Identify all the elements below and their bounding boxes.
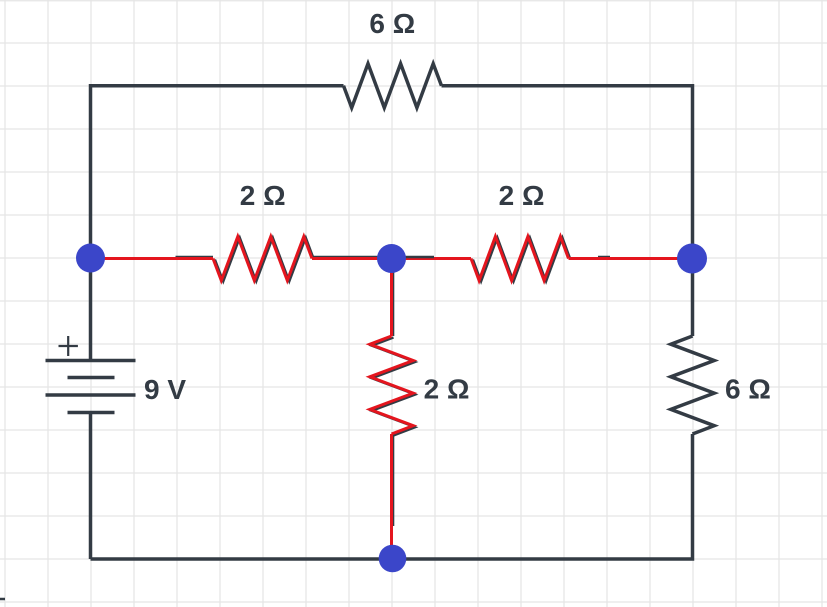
resistor R3 2ohm red vertical zigzag [370,336,413,434]
wire: top-left outer loop (left vertical upper + top horizontal left of R) [91,86,344,361]
resistor left 2ohm shadow [215,238,314,282]
resistor R2 2ohm red zigzag [471,237,569,281]
wire: right vertical lower + bottom horizontal [91,434,693,559]
battery V1 9V: plus sign [59,336,78,356]
wire: middle vertical red upper [390,258,393,336]
svg-text:9 V: 9 V [144,374,186,405]
battery V1: upper short plate [68,376,115,380]
battery V1: top long plate [46,359,136,363]
svg-text:6 Ω: 6 Ω [369,8,415,39]
artifact mark bottom-left edge [0,598,5,601]
node A (left) [76,244,105,273]
wire: dark dash right of center node [402,256,434,259]
wire: red from R1 to center node [312,257,392,260]
svg-text:2 Ω: 2 Ω [240,180,286,211]
resistor right 2ohm shadow [473,238,571,282]
wire: middle vertical shadow (dark underlay) [392,258,394,526]
resistor R1 2ohm red zigzag [213,237,312,281]
resistor R-right 6ohm vertical zigzag [671,336,714,434]
svg-text:6 Ω: 6 Ω [725,374,771,405]
node B (center) [377,244,406,273]
wire: middle horizontal red (left node to center node) [91,257,214,260]
wire: left vertical below battery [89,413,93,560]
wire: top horizontal right of R + right vertical upper [442,86,693,336]
wire: middle horizontal shadow dashes (dark underlay) [176,256,611,258]
node C (right) [677,244,707,274]
node D (bottom) [379,545,407,573]
battery V1: lower long plate [46,393,136,397]
wire: red from R2 to right node [569,257,693,260]
wire: middle vertical red lower [390,434,393,559]
battery V1: bottom short plate [68,411,115,415]
wire: red from center node to R2 [392,257,472,260]
svg-text:2 Ω: 2 Ω [424,374,470,405]
svg-text:2 Ω: 2 Ω [499,180,545,211]
resistor R3 2ohm vertical shadow [372,338,415,436]
resistor R-top 6ohm zigzag [344,64,442,108]
